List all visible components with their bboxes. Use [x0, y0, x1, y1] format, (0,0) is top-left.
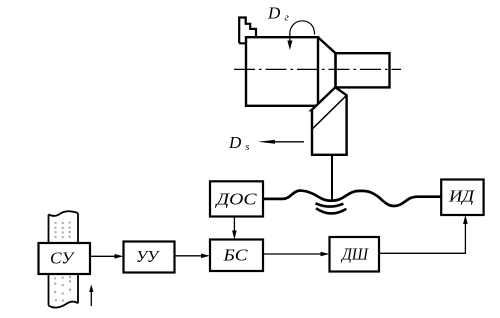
svg-text:s: s	[246, 142, 250, 153]
svg-text:г: г	[285, 12, 290, 24]
punched tape	[49, 211, 79, 307]
svg-text:D: D	[267, 4, 281, 23]
arrow into UU	[115, 254, 124, 259]
cone (taper)	[318, 37, 336, 106]
wire BS to DSh	[263, 253, 321, 255]
svg-text:БС: БС	[222, 246, 248, 265]
block ID	[441, 180, 483, 216]
arrow into BS top	[232, 231, 237, 240]
svg-text:ДОС: ДОС	[214, 190, 257, 209]
block DSh	[330, 237, 380, 272]
svg-text:ДШ: ДШ	[340, 245, 369, 264]
svg-text:D: D	[228, 133, 242, 152]
workpiece small cylinder	[336, 53, 390, 87]
rotation arrow D_g	[287, 21, 314, 50]
flexible cable (wavy line)	[263, 191, 441, 206]
tape feed arrow	[89, 284, 93, 306]
svg-text:СУ: СУ	[50, 249, 76, 268]
label D_g	[267, 4, 290, 24]
wire UU to BS	[175, 255, 203, 257]
arrow into DSh	[321, 252, 330, 257]
block SU	[39, 243, 91, 274]
block DOS	[210, 181, 263, 216]
arrow into BS	[201, 254, 210, 259]
cable slack arc 2	[316, 208, 346, 213]
cable slack arc 1	[316, 203, 344, 206]
wire DSh to ID	[379, 224, 465, 253]
wire SU to UU	[90, 255, 116, 257]
feed arrow D_s	[258, 140, 304, 144]
cutting tool	[311, 87, 346, 155]
svg-text:ИД: ИД	[448, 187, 475, 206]
arrow into ID bottom	[463, 215, 468, 224]
wire tool to cable	[331, 156, 333, 201]
block UU	[124, 242, 175, 273]
svg-text:УУ: УУ	[136, 247, 160, 266]
wire DOS to BS	[233, 217, 235, 232]
block BS	[210, 240, 263, 272]
chuck jaw (stepped claw)	[239, 18, 256, 44]
centerline	[234, 68, 401, 70]
label D_s	[228, 133, 250, 153]
workpiece large cylinder	[246, 37, 318, 106]
